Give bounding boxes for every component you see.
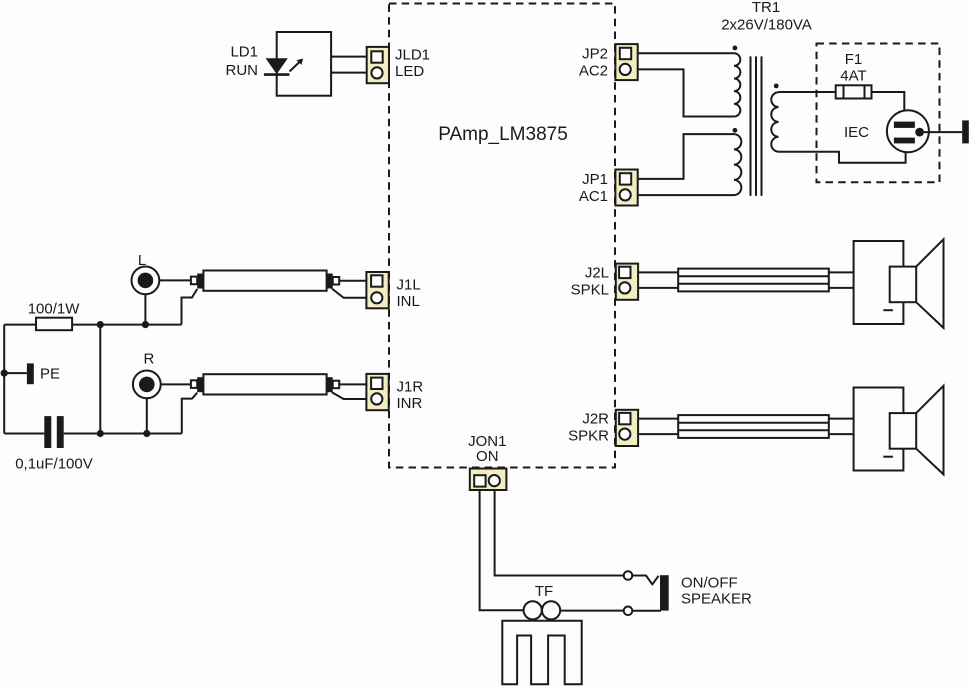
- junction dot: [1, 370, 8, 377]
- svg-text:L: L: [138, 252, 146, 269]
- wire: cable to speaker L top: [829, 271, 854, 273]
- connector J1R: [366, 374, 388, 410]
- transformer E-core: [502, 621, 581, 685]
- svg-text:SPKR: SPKR: [568, 428, 609, 445]
- svg-text:TF: TF: [535, 583, 553, 600]
- wire: PE tap: [4, 372, 27, 374]
- wire: bottom contact to bar: [632, 610, 661, 612]
- ground left vertical: [3, 325, 5, 434]
- wire: J2L pin2 to speaker cable: [631, 287, 678, 289]
- wire: primary bottom to IEC bottom: [779, 141, 906, 163]
- wire: cable R shield to J1R pin2: [332, 392, 372, 399]
- wire: cable R shield to ground: [182, 393, 197, 434]
- svg-text:JLD1: JLD1: [395, 46, 430, 63]
- svg-text:2x26V/180VA: 2x26V/180VA: [721, 17, 812, 34]
- thermal fuse TF: [524, 601, 561, 619]
- switch lever: [632, 576, 658, 585]
- svg-text:J1L: J1L: [397, 276, 421, 293]
- junction dot: [97, 321, 104, 328]
- svg-text:AC2: AC2: [579, 62, 608, 79]
- speaker cable left: [678, 269, 829, 292]
- resistor 100/1W: [36, 318, 72, 331]
- wire: loop to JLD1 pin1: [331, 56, 371, 58]
- wire: TF to switch bottom contact: [560, 610, 624, 612]
- junction dot: [97, 430, 104, 437]
- input cable L: [191, 271, 339, 291]
- PE terminal: [27, 363, 34, 384]
- transformer TR1 secondary winding 2: [734, 134, 741, 195]
- svg-text:PE: PE: [40, 365, 60, 382]
- wire: JP2 pin2 to winding1 bottom: [631, 69, 734, 116]
- wire: J2R pin2 to speaker cable: [631, 433, 678, 435]
- svg-text:J2L: J2L: [585, 264, 609, 281]
- svg-text:0,1uF/100V: 0,1uF/100V: [15, 456, 93, 473]
- PAmp board dashed outline: [389, 4, 615, 468]
- ground bus bottom left: [4, 433, 44, 435]
- wire: JON1 pin1 down to TF: [480, 486, 524, 610]
- wire: JP2 pin1 to winding1 top: [631, 52, 734, 54]
- switch contact bottom: [624, 607, 633, 616]
- connector J2R: [616, 410, 638, 446]
- connector J1L: [366, 272, 388, 308]
- svg-text:RUN: RUN: [226, 62, 259, 79]
- svg-text:TR1: TR1: [752, 0, 780, 16]
- connector JP1: [615, 170, 637, 206]
- svg-text:LD1: LD1: [230, 44, 258, 61]
- wire: J2L pin1 to speaker cable: [631, 271, 678, 273]
- wire: JP1 pin2 to winding2 bottom: [631, 194, 734, 196]
- junction dot: [143, 430, 150, 437]
- wire: loop to JLD1 pin2: [331, 72, 371, 74]
- wire: cable L shield to J1L pin2: [332, 289, 372, 298]
- wire: JON1 pin2 down to switch: [495, 486, 624, 576]
- LED LD1: [264, 58, 303, 74]
- wire: cable R to J1R pin1: [339, 383, 371, 385]
- wire: cable to speaker L bottom: [829, 287, 854, 289]
- svg-text:JP2: JP2: [582, 45, 608, 62]
- switch bar: [660, 575, 669, 610]
- junction dot: [142, 321, 149, 328]
- polarity dot winding2: [733, 128, 738, 133]
- svg-text:ON: ON: [476, 448, 499, 465]
- svg-text:AC1: AC1: [579, 188, 608, 205]
- transformer TR1 primary winding: [771, 92, 778, 152]
- svg-text:INL: INL: [397, 293, 420, 310]
- wire: fuse to IEC top: [872, 92, 905, 125]
- svg-text:PAmp_LM3875: PAmp_LM3875: [438, 124, 568, 145]
- input cable R: [191, 374, 339, 394]
- wire: J2R pin1 to speaker cable: [631, 418, 678, 420]
- wire: cable to speaker R top: [829, 418, 854, 420]
- wire: cable L shield to ground: [182, 289, 198, 325]
- wire: RCA R to cable: [161, 383, 191, 385]
- speaker R: [854, 386, 944, 475]
- fuse F1: [836, 85, 872, 98]
- IEC inlet: [887, 110, 929, 152]
- svg-text:4AT: 4AT: [840, 68, 866, 85]
- mains plug: [962, 120, 969, 143]
- mains unit dashed outline: [817, 44, 940, 183]
- speaker cable right: [678, 415, 829, 438]
- svg-text:J2R: J2R: [582, 411, 609, 428]
- wire: RCA L to cable: [159, 279, 191, 281]
- ground bus top: [4, 324, 181, 326]
- polarity dot winding1: [733, 46, 738, 51]
- svg-text:LED: LED: [395, 63, 424, 80]
- polarity dot primary: [774, 84, 779, 89]
- wire: cable to speaker R bottom: [829, 433, 854, 435]
- wire: LED cable loop: [277, 32, 331, 96]
- wire: JP1 pin1 to winding2 top: [631, 134, 734, 179]
- svg-text:SPEAKER: SPEAKER: [681, 590, 752, 607]
- connector JON1: [470, 469, 507, 491]
- switch contact top: [624, 571, 633, 580]
- wire: cable L to J1L pin1: [339, 280, 371, 282]
- wire: IEC to mains plug: [924, 131, 962, 133]
- svg-text:IEC: IEC: [844, 124, 869, 141]
- svg-text:R: R: [143, 351, 154, 368]
- ground bus bottom right: [64, 433, 182, 435]
- wire: primary top to fuse: [779, 91, 836, 93]
- svg-text:JP1: JP1: [582, 171, 608, 188]
- svg-text:J1R: J1R: [397, 379, 424, 396]
- RCA socket L: [132, 267, 160, 325]
- ground mid vertical: [99, 325, 101, 434]
- connector JLD1: [367, 47, 389, 83]
- svg-text:F1: F1: [845, 51, 863, 68]
- speaker L: [854, 239, 944, 328]
- svg-text:100/1W: 100/1W: [28, 300, 81, 317]
- transformer TR1 core: [751, 56, 762, 196]
- RCA socket R: [133, 371, 161, 434]
- transformer TR1 secondary winding 1: [734, 53, 740, 116]
- svg-text:SPKL: SPKL: [571, 282, 609, 299]
- connector J2L: [616, 264, 638, 300]
- connector JP2: [615, 44, 637, 80]
- svg-text:ON/OFF: ON/OFF: [681, 575, 738, 592]
- capacitor 0,1uF/100V: [44, 416, 63, 448]
- svg-text:INR: INR: [397, 395, 423, 412]
